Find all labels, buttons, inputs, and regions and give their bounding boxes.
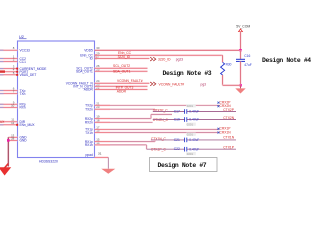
wire 5V_COM stem bbox=[240, 32, 242, 51]
wire VDD5 to 5V junction bbox=[95, 49, 241, 51]
svg-text:TXn: TXn bbox=[20, 92, 26, 96]
svg-text:VCC33: VCC33 bbox=[20, 48, 31, 52]
pin 11 DIR wire bbox=[0, 121, 18, 123]
pin 28 GND wire bbox=[8, 139, 17, 141]
svg-text:ADDR: ADDR bbox=[117, 90, 127, 94]
wire R30 to ground rail bbox=[222, 75, 224, 85]
junction on GND bus bbox=[7, 139, 10, 142]
svg-text:0201: 0201 bbox=[187, 122, 194, 126]
wire ENn_CC corner down to R30 bbox=[222, 55, 224, 62]
junction 5V node bbox=[239, 49, 242, 52]
svg-text:CRX1N: CRX1N bbox=[220, 130, 232, 134]
svg-text:TX2n: TX2n bbox=[85, 107, 93, 111]
wire TX1p bbox=[95, 128, 111, 130]
wire C16 to ground junction bbox=[240, 61, 242, 85]
wire VCONN_FAULT_N bbox=[95, 82, 150, 84]
junction ground node bbox=[239, 84, 242, 87]
pin 12 wire end marker bbox=[0, 124, 4, 126]
wire ADDR bbox=[95, 88, 148, 90]
wire TX2n bbox=[95, 108, 111, 110]
wire AC-coupled row CTX2N bbox=[153, 119, 185, 121]
svg-text:R30: R30 bbox=[226, 63, 232, 67]
wire TX2p bbox=[95, 104, 111, 106]
svg-text:0.47uF: 0.47uF bbox=[189, 147, 199, 151]
note box Design Note #7 bbox=[150, 158, 218, 172]
svg-text:TX1n: TX1n bbox=[85, 131, 93, 135]
svg-text:C22: C22 bbox=[174, 147, 180, 151]
pin 8 wire end marker bbox=[0, 49, 4, 51]
wire ground rail horizontal bbox=[223, 84, 241, 86]
svg-text:Design Note #7: Design Note #7 bbox=[158, 162, 207, 169]
svg-text:RXn: RXn bbox=[20, 106, 26, 110]
pin 9 wire end marker bbox=[0, 103, 4, 105]
wire ID bbox=[95, 57, 150, 59]
pin 6 TXp wire bbox=[0, 90, 18, 92]
wire RX1n with step down bbox=[95, 144, 111, 146]
svg-text:ppad: ppad bbox=[85, 153, 93, 157]
svg-text:C16: C16 bbox=[244, 54, 250, 58]
svg-text:Design Note #3: Design Note #3 bbox=[163, 70, 212, 77]
svg-text:HD3SS3220: HD3SS3220 bbox=[39, 160, 58, 164]
svg-text:C21: C21 bbox=[174, 138, 180, 142]
wire RX2n bbox=[95, 121, 111, 123]
svg-text:CTX1N_C: CTX1N_C bbox=[151, 137, 167, 141]
off-page connector VCONN_FAULT# bbox=[150, 82, 156, 86]
pin 1 wire end marker bbox=[0, 58, 4, 60]
pin 3 red marker dot bbox=[16, 68, 18, 70]
pin 3 CURRENT_MODE wire bbox=[0, 68, 18, 70]
svg-text:C19: C19 bbox=[174, 117, 180, 121]
resistor R30 bbox=[221, 62, 225, 75]
wire RX2p with step bbox=[95, 118, 111, 120]
svg-text:10: 10 bbox=[11, 103, 15, 107]
pin 29 red marker dot bbox=[95, 54, 97, 56]
pin 3 wire end marker bbox=[0, 68, 4, 70]
svg-text:U2: U2 bbox=[19, 35, 24, 39]
ground symbol bottom-left bbox=[3, 164, 8, 170]
svg-text:3220_ID: 3220_ID bbox=[158, 58, 171, 62]
capacitor C19 with 0.47uF and 0201 note bbox=[184, 117, 186, 122]
pin 4 red marker dot bbox=[16, 71, 18, 73]
ground symbol PPAD bbox=[101, 169, 115, 174]
svg-text:VCONN_FAULT#: VCONN_FAULT# bbox=[159, 82, 185, 86]
svg-text:GND: GND bbox=[20, 139, 28, 143]
pin 13 GND wire bbox=[8, 136, 17, 138]
svg-text:C17: C17 bbox=[174, 109, 180, 113]
pin 12 red marker dot bbox=[16, 124, 18, 126]
svg-text:CTX2N_C: CTX2N_C bbox=[153, 118, 169, 122]
svg-text:28: 28 bbox=[11, 136, 15, 140]
svg-text:0201: 0201 bbox=[187, 104, 194, 108]
net label fragment on PORT row at image edge bbox=[0, 70, 5, 72]
svg-text:ADDR: ADDR bbox=[84, 88, 94, 92]
wire TX1n bbox=[95, 132, 111, 134]
svg-text:12: 12 bbox=[11, 121, 15, 125]
svg-text:pg3: pg3 bbox=[201, 82, 207, 86]
svg-text:31: 31 bbox=[98, 152, 102, 156]
off-page connector ID bbox=[150, 57, 156, 61]
svg-text:5V_COM: 5V_COM bbox=[236, 24, 250, 28]
svg-text:ENn_MUX: ENn_MUX bbox=[20, 123, 36, 127]
chip U2 body bbox=[18, 41, 95, 158]
wire PPAD down bbox=[107, 157, 109, 168]
svg-text:SDA_OUT1: SDA_OUT1 bbox=[76, 70, 93, 74]
pin 10 RXn wire bbox=[0, 106, 18, 108]
pin 12 ENn_MUX wire bbox=[0, 124, 18, 126]
svg-text:47uF: 47uF bbox=[244, 63, 252, 67]
pin 1 CC2 wire bbox=[0, 58, 18, 60]
pin 2 CC1 wire bbox=[0, 61, 18, 63]
svg-text:CC1: CC1 bbox=[20, 60, 27, 64]
pin 7 wire end marker bbox=[0, 93, 4, 95]
svg-text:VDD5: VDD5 bbox=[84, 48, 93, 52]
wire INT_N_OUT3 bbox=[95, 85, 148, 87]
capacitor C16 bbox=[236, 58, 245, 60]
svg-text:SCL_OUT2: SCL_OUT2 bbox=[113, 64, 130, 68]
pin 6 wire end marker bbox=[0, 90, 4, 92]
pin 10 wire end marker bbox=[0, 106, 4, 108]
svg-text:RX2n: RX2n bbox=[85, 121, 93, 125]
svg-text:VCONN_FAULT#: VCONN_FAULT# bbox=[117, 79, 143, 83]
pin 7 TXn wire bbox=[0, 93, 18, 95]
wire PPAD stub bbox=[95, 156, 109, 158]
wire AC-coupled row CTX1P bbox=[147, 148, 185, 150]
svg-text:pg23: pg23 bbox=[176, 58, 184, 62]
wire SDA_OUT1 bbox=[95, 70, 148, 72]
wire ENn_CC bbox=[95, 54, 223, 56]
svg-text:VBUS_DET: VBUS_DET bbox=[20, 73, 37, 77]
svg-text:0201: 0201 bbox=[187, 152, 194, 156]
svg-text:0.47uF: 0.47uF bbox=[189, 118, 199, 122]
wire GND vertical bus bbox=[7, 137, 9, 166]
wire AC-coupled row CTX1N bbox=[151, 139, 185, 141]
pin 4 PORT wire bbox=[0, 71, 18, 73]
capacitor C21 with 0.47uF and 0201 note bbox=[184, 138, 186, 143]
svg-text:CTX2N: CTX2N bbox=[223, 116, 234, 120]
pin 5 VBUS_DET wire bbox=[0, 74, 18, 76]
pin 5 wire end marker bbox=[0, 74, 4, 76]
capacitor C17 with 0.47uF and 0201 note bbox=[184, 109, 186, 114]
svg-text:CTX2P: CTX2P bbox=[223, 108, 234, 112]
capacitor C22 with 0.47uF and 0201 note bbox=[184, 147, 186, 152]
pin 9 RXp wire bbox=[0, 103, 18, 105]
wire AC-coupled row CTX2P bbox=[153, 111, 185, 113]
wire RX1p bbox=[95, 141, 111, 143]
svg-text:0.47uF: 0.47uF bbox=[189, 110, 199, 114]
pin 27 red marker dot bbox=[95, 57, 97, 59]
svg-text:0201: 0201 bbox=[187, 132, 194, 136]
svg-text:Design Note #4: Design Note #4 bbox=[262, 57, 311, 64]
svg-text:RX1n: RX1n bbox=[85, 143, 93, 147]
wire 5V junction to C16 bbox=[240, 50, 242, 59]
pin 5 red marker dot bbox=[16, 74, 18, 76]
pin 8 VCC33 wire bbox=[0, 49, 18, 51]
ground symbol 5V decoupling bbox=[240, 85, 242, 88]
pin 2 wire end marker bbox=[0, 61, 4, 63]
wire SCL_OUT2 bbox=[95, 67, 148, 69]
svg-text:SDA_OUT1: SDA_OUT1 bbox=[113, 69, 131, 73]
svg-text:0.47uF: 0.47uF bbox=[189, 138, 199, 142]
svg-text:3220_ID: 3220_ID bbox=[118, 55, 131, 59]
svg-text:CTX1N: CTX1N bbox=[223, 136, 234, 140]
svg-text:CTX1P: CTX1P bbox=[223, 145, 234, 149]
